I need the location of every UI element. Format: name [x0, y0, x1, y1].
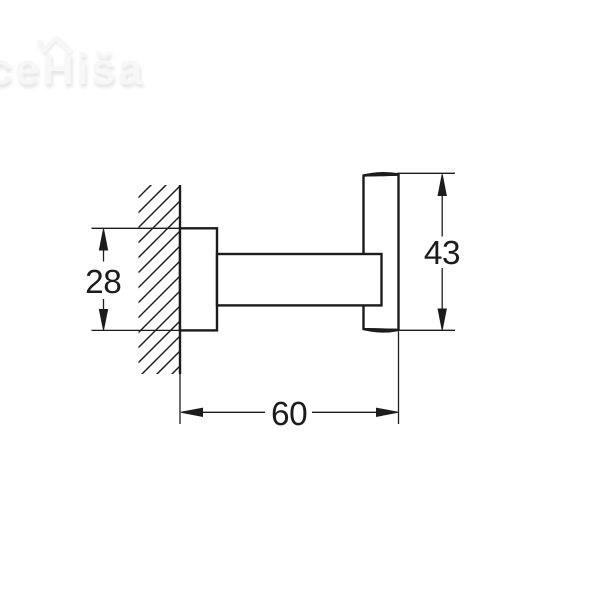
- arm: [217, 254, 382, 305]
- watermark eHisa logo: [0, 39, 146, 98]
- dim 60 line with arrows: [181, 408, 398, 416]
- svg-text:60: 60: [271, 396, 307, 433]
- wall line: [179, 185, 181, 374]
- dim 43 extension line top: [397, 172, 455, 174]
- dim 28 line with arrows: [99, 229, 107, 330]
- dim 28 extension line bottom: [92, 329, 181, 331]
- svg-text:43: 43: [424, 235, 460, 272]
- dim 60 extension line right: [398, 332, 400, 425]
- wall hatch: [120, 136, 200, 456]
- svg-text:28: 28: [85, 264, 121, 301]
- mounting plate: [180, 228, 217, 330]
- dim 28 extension line top: [92, 227, 181, 229]
- dim 43 line with arrows: [438, 174, 446, 330]
- dim 60 extension line left: [179, 374, 181, 424]
- hook head: [364, 173, 399, 331]
- dim 43 extension line bottom: [397, 329, 455, 331]
